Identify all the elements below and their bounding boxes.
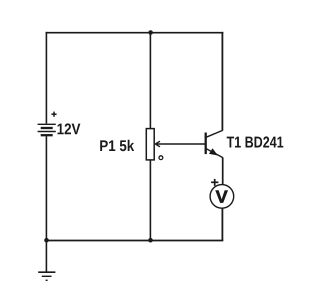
- wire emitter down: [222, 157, 224, 184]
- battery B1 12V: [38, 124, 56, 135]
- voltmeter plus sign: [211, 179, 218, 186]
- wire top rail: [46, 32, 224, 34]
- label 12V: [58, 123, 81, 134]
- battery plus sign: [51, 112, 56, 117]
- voltmeter V glyph: [216, 191, 228, 203]
- transistor T1 collector: [206, 130, 222, 137]
- wire below voltmeter: [221, 208, 223, 240]
- potentiometer P1 body: [146, 129, 154, 160]
- wire middle lower: [149, 160, 151, 241]
- voltmeter body: [210, 185, 234, 209]
- wire left upper: [45, 32, 47, 124]
- label T1 BD241: [227, 136, 284, 147]
- node bottom middle junction: [148, 238, 153, 243]
- wire middle upper: [149, 33, 151, 129]
- transistor T1 emitter arrowhead: [209, 148, 218, 155]
- transistor T1 emitter: [206, 149, 223, 158]
- wire bottom rail: [46, 240, 224, 242]
- potentiometer terminal circle: [159, 156, 163, 160]
- ground: [38, 241, 55, 281]
- node top junction: [148, 30, 153, 35]
- wire right upper (collector rail): [221, 32, 223, 131]
- node left bottom junction: [44, 238, 49, 243]
- label P1 5k: [100, 140, 134, 151]
- potentiometer wiper arrow: [155, 141, 205, 147]
- wire left lower: [45, 136, 47, 240]
- transistor T1 base bar: [205, 133, 207, 155]
